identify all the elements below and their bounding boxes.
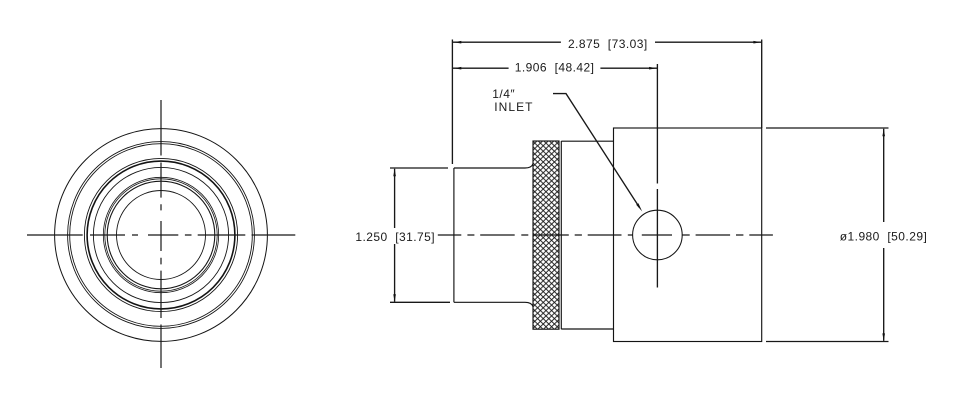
main body outline (614, 128, 762, 342)
knurl right face second line (560, 141, 562, 329)
thread crest circle (103, 177, 218, 292)
middle section circle (70, 144, 253, 327)
horizontal centerline of end view (27, 234, 295, 236)
internal bore circle inner (dark) (87, 161, 235, 309)
front view outer circle (body OD 1.980) (55, 129, 268, 342)
arrow left 2.875 (454, 41, 462, 44)
svg-text:1.250 [31.75]: 1.250 [31.75] (355, 230, 435, 244)
leader line 1/4 INLET (553, 94, 640, 208)
arrow left 1.906 (454, 67, 462, 70)
arrow right 2.875 (753, 41, 761, 44)
arrow top 1.250 (393, 169, 396, 177)
internal bore circle outer (84, 158, 237, 311)
extension line left (2.875 / 1.906) (451, 40, 453, 165)
vertical centerline of end view (160, 100, 162, 368)
inlet hole circle (633, 210, 683, 260)
port circle (1.250 OD) (93, 167, 228, 302)
dimension 2.875 [73.03] (453, 41, 762, 43)
arrow bottom O1.980 (882, 333, 885, 341)
arrow top O1.980 (882, 129, 885, 137)
knurled ring outline (533, 141, 559, 329)
svg-text:1/4″: 1/4″ (492, 87, 515, 101)
middle section outline (561, 141, 613, 329)
svg-text:INLET: INLET (494, 100, 533, 114)
svg-text:1.906 [48.42]: 1.906 [48.42] (515, 61, 595, 75)
svg-text:ø1.980 [50.29]: ø1.980 [50.29] (840, 229, 927, 243)
dimension 1.250 [31.75] extension lines (390, 168, 450, 302)
knurl outer circle (68, 142, 255, 329)
thread root circle (105, 179, 217, 291)
dimension O1.980 [50.29] extension lines (766, 128, 889, 342)
port cylinder outline (454, 164, 533, 307)
arrow right 1.906 (649, 67, 657, 70)
svg-text:2.875 [73.03]: 2.875 [73.03] (568, 37, 648, 51)
dimension 1.906 [48.42] (453, 67, 657, 69)
dimension 1.250 line (394, 169, 396, 302)
through hole circle (117, 191, 206, 280)
leader arrowhead (636, 203, 642, 211)
inlet hole vertical centerline / 1.906 extension (656, 64, 658, 288)
axis centerline (438, 234, 773, 236)
arrow bottom 1.250 (393, 294, 396, 302)
extension line right top (2.875) (761, 40, 763, 129)
counterbore circle (107, 181, 215, 289)
dimension O1.980 line (883, 129, 885, 341)
